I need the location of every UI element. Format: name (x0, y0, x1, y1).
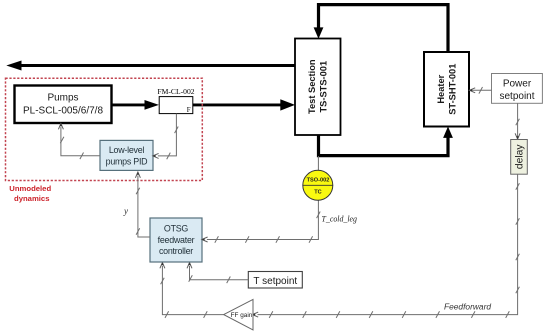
wire: FM-CL-002 measurement to PID (158, 114, 177, 156)
low-level pumps PID box (100, 140, 153, 170)
svg-text:Low-level: Low-level (109, 145, 145, 155)
FF gain triangle (224, 299, 253, 330)
wire: FF gain output up into OTSG controller (162, 266, 223, 315)
svg-text:Feedforward: Feedforward (444, 302, 491, 312)
svg-text:FM-CL-002: FM-CL-002 (157, 87, 194, 96)
wire: T setpoint to OTSG controller (190, 266, 249, 280)
red dashed boundary: unmodeled dynamics (6, 78, 203, 180)
wire: OTSG y output up to pumps PID (138, 176, 150, 238)
pumps P1 box (15, 86, 112, 124)
wire: PID output to Pumps (61, 127, 100, 156)
wire: TC sensor down and left to OTSG controller (207, 200, 319, 239)
OTSG feedwater controller box (150, 218, 202, 262)
svg-text:FF gain: FF gain (231, 312, 253, 319)
svg-text:Pumps: Pumps (47, 93, 78, 104)
wire: test section bottom to TC sensor (317, 156, 319, 170)
wire: power setpoint down to delay (517, 103, 519, 138)
test section TS-STS-001 box (295, 39, 341, 136)
svg-text:OTSG: OTSG (164, 224, 188, 234)
svg-text:PL-SCL-005/6/7/8: PL-SCL-005/6/7/8 (23, 106, 103, 117)
wire: thick hot-leg return from Heater top to Test Section top (319, 5, 449, 53)
svg-text:F: F (187, 107, 191, 114)
wire: thick cold-leg outlet arrow to far left (19, 64, 295, 67)
svg-text:Test Section: Test Section (307, 59, 317, 114)
svg-text:ST-SHT-001: ST-SHT-001 (448, 64, 458, 115)
svg-text:T_cold_leg: T_cold_leg (322, 215, 358, 224)
wire: thick FM-CL-002 to Test Section (193, 103, 283, 106)
svg-text:TC: TC (314, 190, 321, 196)
svg-text:Heater: Heater (436, 74, 446, 103)
svg-text:TS-STS-001: TS-STS-001 (319, 61, 329, 113)
svg-text:y: y (123, 206, 128, 216)
svg-text:pumps PID: pumps PID (106, 157, 148, 167)
svg-text:dynamics: dynamics (14, 194, 49, 203)
temperature sensor TSO-002 circle (303, 170, 333, 200)
svg-text:TSO-002: TSO-002 (307, 177, 330, 183)
svg-text:controller: controller (159, 246, 193, 256)
flow meter FM-CL-002 box (159, 97, 193, 114)
power setpoint box (492, 74, 543, 104)
delay box (511, 140, 528, 175)
wire: delay down and bottom feedforward run to FF gain (258, 174, 518, 314)
heater ST-SHT-001 box (424, 52, 469, 127)
wire: thick line Test Section bottom to Heater bottom (319, 135, 449, 156)
svg-text:delay: delay (515, 144, 526, 169)
svg-text:setpoint: setpoint (499, 91, 534, 102)
svg-text:feedwater: feedwater (158, 235, 195, 245)
svg-text:Power: Power (503, 79, 532, 90)
wire: thick Pumps to FM-CL-002 (112, 103, 147, 106)
T setpoint box (248, 272, 302, 289)
svg-text:Unmodeled: Unmodeled (9, 184, 51, 193)
svg-text:T setpoint: T setpoint (253, 276, 297, 287)
wire: power setpoint to heater (471, 89, 492, 91)
